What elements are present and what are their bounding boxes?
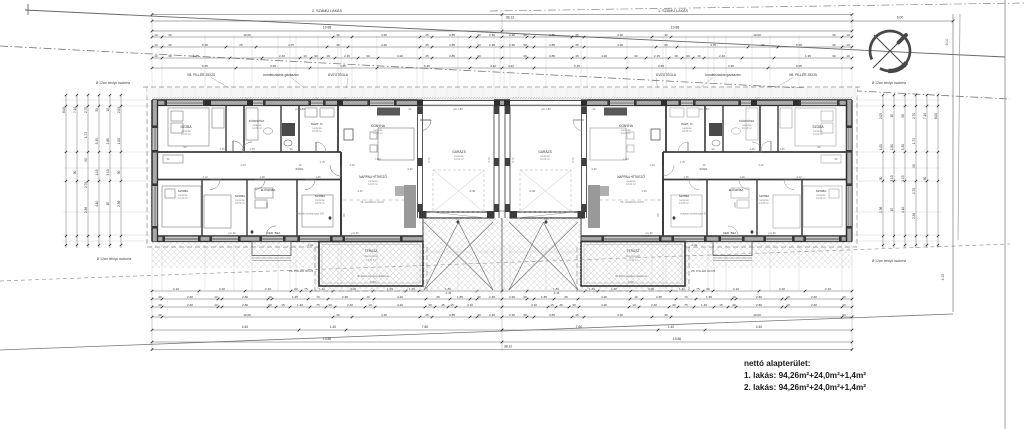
svg-text:10: 10 bbox=[366, 295, 370, 299]
svg-text:1.40: 1.40 bbox=[701, 303, 707, 307]
svg-text:2.20: 2.20 bbox=[779, 287, 785, 291]
svg-text:pm 90: pm 90 bbox=[768, 231, 776, 235]
svg-text:7.60: 7.60 bbox=[576, 325, 583, 329]
svg-text:±0.00: ±0.00 bbox=[499, 209, 506, 213]
svg-text:10: 10 bbox=[214, 295, 218, 299]
svg-text:kondenzációs gázkazán: kondenzációs gázkazán bbox=[263, 73, 298, 77]
svg-text:4.35: 4.35 bbox=[641, 189, 647, 193]
svg-text:-0.48: -0.48 bbox=[445, 291, 452, 295]
svg-text:2.80: 2.80 bbox=[106, 138, 110, 144]
svg-text:2.10: 2.10 bbox=[173, 287, 179, 291]
svg-text:30: 30 bbox=[477, 295, 481, 299]
svg-text:3.30: 3.30 bbox=[901, 144, 905, 150]
svg-text:1.15: 1.15 bbox=[95, 169, 99, 175]
svg-text:ÜVEGTÉGLA: ÜVEGTÉGLA bbox=[328, 72, 349, 77]
svg-text:75: 75 bbox=[304, 287, 308, 291]
svg-text:3.85: 3.85 bbox=[549, 43, 555, 47]
svg-text:12,00 m²: 12,00 m² bbox=[813, 133, 823, 136]
svg-text:4.35: 4.35 bbox=[357, 189, 363, 193]
svg-text:8.00: 8.00 bbox=[934, 113, 938, 119]
svg-text:1.40: 1.40 bbox=[297, 303, 303, 307]
svg-text:30: 30 bbox=[158, 313, 162, 317]
svg-text:2.05: 2.05 bbox=[733, 202, 737, 208]
svg-text:2.80: 2.80 bbox=[756, 295, 762, 299]
svg-text:2.30: 2.30 bbox=[509, 43, 515, 47]
svg-text:2.40: 2.40 bbox=[407, 167, 413, 171]
svg-text:1.00: 1.00 bbox=[879, 144, 883, 150]
svg-text:10: 10 bbox=[846, 43, 850, 47]
svg-text:pm 1.80: pm 1.80 bbox=[295, 107, 305, 111]
svg-text:12,00 m²: 12,00 m² bbox=[252, 127, 262, 130]
svg-text:45: 45 bbox=[564, 295, 568, 299]
svg-text:pm 90: pm 90 bbox=[228, 231, 236, 235]
svg-text:1.35: 1.35 bbox=[805, 54, 811, 58]
svg-text:2.10: 2.10 bbox=[202, 175, 208, 179]
svg-text:60: 60 bbox=[294, 287, 298, 291]
svg-text:4.40: 4.40 bbox=[756, 325, 763, 329]
svg-text:30: 30 bbox=[672, 303, 676, 307]
svg-text:10: 10 bbox=[786, 303, 790, 307]
svg-text:30: 30 bbox=[117, 171, 121, 175]
svg-text:1.45: 1.45 bbox=[249, 147, 255, 151]
svg-text:30: 30 bbox=[842, 313, 846, 317]
svg-text:2.05: 2.05 bbox=[265, 202, 269, 208]
svg-text:1.15: 1.15 bbox=[679, 160, 685, 164]
svg-text:12,00 m²: 12,00 m² bbox=[621, 132, 631, 135]
svg-text:30: 30 bbox=[328, 303, 332, 307]
svg-text:GARÁZS: GARÁZS bbox=[538, 150, 552, 154]
svg-text:2.15: 2.15 bbox=[344, 54, 350, 58]
svg-text:12,00 m²: 12,00 m² bbox=[181, 133, 191, 136]
svg-text:2.20: 2.20 bbox=[219, 287, 225, 291]
svg-text:3.65: 3.65 bbox=[658, 64, 664, 68]
svg-text:2.40: 2.40 bbox=[279, 54, 285, 58]
svg-text:70: 70 bbox=[316, 295, 320, 299]
svg-text:2.60: 2.60 bbox=[187, 295, 193, 299]
svg-text:2.10: 2.10 bbox=[733, 287, 739, 291]
svg-text:12,00 m²: 12,00 m² bbox=[454, 158, 464, 161]
svg-text:30: 30 bbox=[268, 303, 272, 307]
svg-text:75: 75 bbox=[316, 303, 320, 307]
svg-text:1.72: 1.72 bbox=[912, 138, 916, 144]
svg-text:beépített szekrénysor 240: beépített szekrénysor 240 bbox=[680, 213, 708, 216]
svg-text:GARÁZS: GARÁZS bbox=[452, 150, 466, 154]
svg-text:15: 15 bbox=[550, 303, 554, 307]
svg-text:t.110: t.110 bbox=[623, 157, 629, 161]
svg-text:30: 30 bbox=[523, 33, 527, 37]
svg-text:30: 30 bbox=[879, 177, 883, 181]
svg-text:KÖZL.: KÖZL. bbox=[296, 167, 305, 171]
svg-text:90: 90 bbox=[686, 54, 690, 58]
svg-text:2.70: 2.70 bbox=[84, 182, 88, 188]
svg-text:30: 30 bbox=[428, 303, 432, 307]
svg-text:2. lakás: 94,26m²+24,0m²+1,4m²: 2. lakás: 94,26m²+24,0m²+1,4m² bbox=[744, 383, 866, 392]
svg-text:45: 45 bbox=[425, 43, 429, 47]
svg-text:2.30: 2.30 bbox=[509, 313, 515, 317]
svg-text:4.75: 4.75 bbox=[288, 43, 294, 47]
svg-text:10: 10 bbox=[154, 54, 158, 58]
svg-text:30: 30 bbox=[158, 303, 162, 307]
svg-text:2.30: 2.30 bbox=[489, 295, 495, 299]
svg-text:5.70: 5.70 bbox=[487, 157, 491, 163]
svg-text:8.00: 8.00 bbox=[945, 39, 949, 46]
svg-text:pm 1.80: pm 1.80 bbox=[699, 107, 709, 111]
svg-text:60: 60 bbox=[706, 287, 710, 291]
svg-text:-0.48: -0.48 bbox=[553, 291, 560, 295]
svg-text:2.40: 2.40 bbox=[240, 163, 246, 167]
svg-text:30: 30 bbox=[572, 303, 576, 307]
svg-text:30: 30 bbox=[523, 295, 527, 299]
svg-text:NAPPALI+ÉTKEZŐ: NAPPALI+ÉTKEZŐ bbox=[617, 174, 645, 179]
svg-text:2.60: 2.60 bbox=[811, 295, 817, 299]
svg-text:90: 90 bbox=[84, 158, 88, 162]
svg-text:1.35: 1.35 bbox=[219, 147, 225, 151]
svg-text:4.20: 4.20 bbox=[617, 313, 623, 317]
svg-text:10: 10 bbox=[846, 54, 850, 58]
svg-text:10: 10 bbox=[786, 295, 790, 299]
svg-text:90: 90 bbox=[314, 54, 318, 58]
svg-text:3.10: 3.10 bbox=[106, 169, 110, 175]
svg-text:12,00 m²: 12,00 m² bbox=[540, 158, 550, 161]
svg-text:10: 10 bbox=[890, 114, 894, 118]
svg-text:30: 30 bbox=[168, 43, 172, 47]
svg-text:2.40: 2.40 bbox=[719, 54, 725, 58]
svg-text:6.45: 6.45 bbox=[424, 64, 430, 68]
svg-text:10: 10 bbox=[106, 108, 110, 112]
svg-text:1.85: 1.85 bbox=[457, 295, 463, 299]
svg-text:-0.02: -0.02 bbox=[691, 243, 698, 247]
svg-text:Ø 12cm lefolyó csatorna: Ø 12cm lefolyó csatorna bbox=[872, 81, 907, 85]
svg-text:2.95: 2.95 bbox=[342, 295, 348, 299]
svg-text:4.10: 4.10 bbox=[901, 206, 905, 212]
svg-text:30: 30 bbox=[366, 54, 370, 58]
svg-text:75: 75 bbox=[684, 303, 688, 307]
svg-text:12,00 m²: 12,00 m² bbox=[373, 132, 383, 135]
svg-text:30: 30 bbox=[832, 33, 836, 37]
svg-text:KONYHA: KONYHA bbox=[371, 124, 386, 128]
svg-text:45: 45 bbox=[575, 33, 579, 37]
svg-text:10: 10 bbox=[154, 43, 158, 47]
svg-text:NAPPALI+ÉTKEZŐ: NAPPALI+ÉTKEZŐ bbox=[359, 174, 387, 179]
svg-text:10.00: 10.00 bbox=[243, 313, 251, 317]
svg-text:30: 30 bbox=[634, 54, 638, 58]
svg-text:12,00 m²: 12,00 m² bbox=[312, 130, 322, 133]
svg-text:18: 18 bbox=[326, 54, 330, 58]
svg-text:SZOBA: SZOBA bbox=[679, 194, 689, 198]
svg-text:30: 30 bbox=[477, 33, 481, 37]
svg-text:30: 30 bbox=[842, 303, 846, 307]
svg-text:10: 10 bbox=[890, 208, 894, 212]
svg-text:2.70: 2.70 bbox=[84, 107, 88, 113]
svg-text:4.20: 4.20 bbox=[381, 43, 387, 47]
svg-text:1. lakás: 94,26m²+24,0m²+1,4m²: 1. lakás: 94,26m²+24,0m²+1,4m² bbox=[744, 371, 866, 380]
svg-text:12,00 m²: 12,00 m² bbox=[816, 197, 826, 200]
svg-text:1. SZÁMÚ LAKÁS: 1. SZÁMÚ LAKÁS bbox=[658, 8, 688, 13]
svg-text:VB. PILLÉR 30X25: VB. PILLÉR 30X25 bbox=[691, 268, 716, 273]
svg-text:FÜRDŐSZ.: FÜRDŐSZ. bbox=[249, 118, 265, 123]
svg-text:3.65: 3.65 bbox=[340, 64, 346, 68]
svg-text:2.15: 2.15 bbox=[654, 54, 660, 58]
svg-text:2.80: 2.80 bbox=[242, 303, 248, 307]
svg-text:VB. PILLÉR 25X25: VB. PILLÉR 25X25 bbox=[187, 72, 215, 77]
svg-text:2.10: 2.10 bbox=[265, 287, 271, 291]
svg-text:-0.30: -0.30 bbox=[469, 189, 476, 193]
svg-text:2.36: 2.36 bbox=[912, 213, 916, 219]
svg-text:2.10: 2.10 bbox=[796, 175, 802, 179]
svg-text:10: 10 bbox=[106, 202, 110, 206]
svg-text:4.40: 4.40 bbox=[242, 325, 249, 329]
svg-text:Ø 12cm lefolyó csatorna: Ø 12cm lefolyó csatorna bbox=[96, 81, 131, 85]
svg-text:3.85: 3.85 bbox=[449, 313, 455, 317]
svg-text:30: 30 bbox=[523, 43, 527, 47]
svg-text:2.40: 2.40 bbox=[591, 167, 597, 171]
svg-text:FED. BEJ.: FED. BEJ. bbox=[723, 231, 737, 235]
svg-text:15: 15 bbox=[281, 303, 285, 307]
svg-text:ÜVEGTÉGLA: ÜVEGTÉGLA bbox=[656, 72, 677, 77]
svg-text:30: 30 bbox=[842, 295, 846, 299]
svg-text:3.85: 3.85 bbox=[449, 43, 455, 47]
svg-text:7.10: 7.10 bbox=[923, 113, 927, 119]
svg-text:4.16: 4.16 bbox=[467, 303, 473, 307]
svg-text:45: 45 bbox=[425, 33, 429, 37]
svg-text:19.88: 19.88 bbox=[671, 26, 680, 30]
svg-text:10.00: 10.00 bbox=[753, 313, 761, 317]
svg-text:1.45: 1.45 bbox=[749, 147, 755, 151]
svg-text:30: 30 bbox=[901, 114, 905, 118]
svg-text:4.20: 4.20 bbox=[601, 303, 607, 307]
svg-text:2.36: 2.36 bbox=[879, 206, 883, 212]
svg-text:1.85: 1.85 bbox=[541, 295, 547, 299]
svg-text:pm 1.80: pm 1.80 bbox=[541, 107, 551, 111]
svg-text:30: 30 bbox=[523, 313, 527, 317]
svg-text:10: 10 bbox=[697, 54, 701, 58]
svg-text:1.10: 1.10 bbox=[649, 163, 655, 167]
svg-text:45: 45 bbox=[436, 295, 440, 299]
svg-text:5.00: 5.00 bbox=[796, 43, 802, 47]
svg-text:2.10: 2.10 bbox=[825, 287, 831, 291]
svg-text:5.70: 5.70 bbox=[571, 157, 575, 163]
svg-text:1.95: 1.95 bbox=[706, 295, 712, 299]
svg-text:SZOBA: SZOBA bbox=[235, 194, 245, 198]
svg-text:nettó alapterület:: nettó alapterület: bbox=[744, 359, 810, 368]
svg-text:kondenzációs gázkazán: kondenzációs gázkazán bbox=[705, 73, 740, 77]
svg-text:12,00 m²: 12,00 m² bbox=[682, 130, 692, 133]
svg-text:2.40: 2.40 bbox=[758, 163, 764, 167]
svg-text:45: 45 bbox=[425, 54, 429, 58]
svg-text:beépített szekrénysor 240: beépített szekrénysor 240 bbox=[296, 213, 324, 216]
svg-text:7.10: 7.10 bbox=[73, 107, 77, 113]
svg-text:45: 45 bbox=[425, 313, 429, 317]
svg-text:HÁZT. H.: HÁZT. H. bbox=[681, 122, 694, 126]
svg-text:2.05: 2.05 bbox=[879, 113, 883, 119]
svg-text:30: 30 bbox=[477, 43, 481, 47]
svg-text:2.40: 2.40 bbox=[651, 303, 657, 307]
svg-text:6.00: 6.00 bbox=[897, 16, 904, 20]
svg-text:HÁZT. H.: HÁZT. H. bbox=[311, 122, 324, 126]
svg-text:2.95: 2.95 bbox=[656, 295, 662, 299]
svg-text:30: 30 bbox=[664, 33, 668, 37]
svg-text:30: 30 bbox=[336, 313, 340, 317]
svg-text:10: 10 bbox=[732, 295, 736, 299]
svg-text:38.12: 38.12 bbox=[504, 345, 512, 349]
svg-text:15: 15 bbox=[450, 303, 454, 307]
svg-text:10: 10 bbox=[632, 303, 636, 307]
svg-text:3.30: 3.30 bbox=[95, 138, 99, 144]
svg-text:10: 10 bbox=[846, 33, 850, 37]
svg-text:18: 18 bbox=[674, 54, 678, 58]
svg-text:SZOBA: SZOBA bbox=[812, 125, 824, 129]
svg-text:SZOBA: SZOBA bbox=[759, 194, 769, 198]
svg-text:Ø 12cm lefolyó csatorna: Ø 12cm lefolyó csatorna bbox=[872, 259, 907, 263]
svg-text:2.30: 2.30 bbox=[489, 313, 495, 317]
svg-text:45: 45 bbox=[575, 54, 579, 58]
svg-text:6.05: 6.05 bbox=[796, 64, 802, 68]
svg-text:1.00: 1.00 bbox=[117, 138, 121, 144]
svg-text:45: 45 bbox=[575, 313, 579, 317]
svg-text:10: 10 bbox=[154, 33, 158, 37]
svg-text:1.40: 1.40 bbox=[668, 325, 675, 329]
svg-text:VB. PILLÉR 25X25: VB. PILLÉR 25X25 bbox=[789, 72, 817, 77]
svg-text:2.05: 2.05 bbox=[117, 107, 121, 113]
svg-text:KONYHA: KONYHA bbox=[619, 124, 634, 128]
svg-text:30: 30 bbox=[732, 303, 736, 307]
svg-text:1.35: 1.35 bbox=[193, 54, 199, 58]
svg-text:19.86: 19.86 bbox=[323, 337, 331, 341]
svg-text:45: 45 bbox=[441, 303, 445, 307]
svg-text:30: 30 bbox=[477, 313, 481, 317]
svg-text:4.20: 4.20 bbox=[381, 313, 387, 317]
svg-text:30: 30 bbox=[168, 33, 172, 37]
svg-text:pm 1.80: pm 1.80 bbox=[453, 107, 463, 111]
svg-text:25: 25 bbox=[239, 43, 243, 47]
svg-text:30: 30 bbox=[477, 54, 481, 58]
svg-text:2. SZÁMÚ LAKÁS: 2. SZÁMÚ LAKÁS bbox=[312, 8, 342, 13]
svg-text:7.60: 7.60 bbox=[422, 325, 429, 329]
svg-text:30: 30 bbox=[336, 43, 340, 47]
svg-text:4.75: 4.75 bbox=[710, 43, 716, 47]
svg-text:2.36: 2.36 bbox=[84, 207, 88, 213]
svg-text:12,00 m²: 12,00 m² bbox=[178, 197, 188, 200]
svg-text:70: 70 bbox=[684, 295, 688, 299]
svg-text:4.20: 4.20 bbox=[601, 54, 607, 58]
svg-text:3.85: 3.85 bbox=[549, 313, 555, 317]
svg-text:2.60: 2.60 bbox=[811, 303, 817, 307]
svg-text:2.30: 2.30 bbox=[509, 295, 515, 299]
svg-text:5.70: 5.70 bbox=[427, 157, 431, 163]
svg-text:2.80: 2.80 bbox=[756, 303, 762, 307]
svg-text:SZOBA: SZOBA bbox=[816, 189, 827, 193]
svg-text:2.40: 2.40 bbox=[347, 303, 353, 307]
svg-text:30: 30 bbox=[923, 177, 927, 181]
svg-text:4.20: 4.20 bbox=[617, 33, 623, 37]
svg-text:1.40: 1.40 bbox=[330, 325, 337, 329]
svg-text:12,00 m²: 12,00 m² bbox=[679, 202, 689, 205]
svg-text:1.45: 1.45 bbox=[683, 175, 689, 179]
svg-text:1.95: 1.95 bbox=[292, 295, 298, 299]
svg-text:45: 45 bbox=[559, 303, 563, 307]
svg-text:1.48: 1.48 bbox=[259, 175, 265, 179]
svg-text:4.20: 4.20 bbox=[617, 43, 623, 47]
svg-text:1.48: 1.48 bbox=[739, 175, 745, 179]
svg-text:10: 10 bbox=[214, 303, 218, 307]
svg-text:3.20: 3.20 bbox=[728, 64, 734, 68]
svg-text:pm 90: pm 90 bbox=[351, 231, 359, 235]
svg-text:4.20: 4.20 bbox=[397, 295, 403, 299]
svg-text:6.45: 6.45 bbox=[574, 64, 580, 68]
svg-text:2.80: 2.80 bbox=[890, 144, 894, 150]
svg-text:2.70: 2.70 bbox=[912, 113, 916, 119]
svg-text:30: 30 bbox=[664, 313, 668, 317]
svg-text:3.10: 3.10 bbox=[890, 175, 894, 181]
svg-text:8.00: 8.00 bbox=[62, 107, 66, 113]
svg-text:2.30: 2.30 bbox=[489, 33, 495, 37]
svg-text:30: 30 bbox=[832, 54, 836, 58]
svg-text:1.72: 1.72 bbox=[84, 132, 88, 138]
svg-text:12,00 m²: 12,00 m² bbox=[315, 202, 325, 205]
svg-text:10: 10 bbox=[634, 295, 638, 299]
svg-text:SZOBA: SZOBA bbox=[178, 189, 189, 193]
svg-text:12,00 m²: 12,00 m² bbox=[626, 183, 636, 186]
svg-text:2.60: 2.60 bbox=[187, 303, 193, 307]
svg-text:2.36: 2.36 bbox=[117, 200, 121, 206]
svg-text:10.00: 10.00 bbox=[753, 33, 761, 37]
svg-text:2.30: 2.30 bbox=[489, 43, 495, 47]
svg-text:12,00 m²: 12,00 m² bbox=[742, 127, 752, 130]
svg-text:25: 25 bbox=[761, 43, 765, 47]
svg-text:4.15: 4.15 bbox=[941, 274, 945, 281]
svg-text:SZOBA: SZOBA bbox=[180, 125, 192, 129]
svg-text:30: 30 bbox=[336, 33, 340, 37]
svg-text:4.20: 4.20 bbox=[397, 54, 403, 58]
svg-text:2.30: 2.30 bbox=[509, 33, 515, 37]
svg-text:4.20: 4.20 bbox=[381, 33, 387, 37]
svg-text:10: 10 bbox=[268, 295, 272, 299]
svg-text:5.00: 5.00 bbox=[202, 43, 208, 47]
svg-text:VB. GERENDA 30X25: VB. GERENDA 30X25 bbox=[620, 201, 644, 204]
svg-text:3.85: 3.85 bbox=[449, 33, 455, 37]
svg-text:4.10: 4.10 bbox=[95, 200, 99, 206]
svg-text:KÖZL.: KÖZL. bbox=[700, 167, 709, 171]
svg-text:3.85: 3.85 bbox=[549, 54, 555, 58]
svg-text:6.05: 6.05 bbox=[202, 64, 208, 68]
svg-text:4.42: 4.42 bbox=[490, 64, 496, 68]
svg-text:30: 30 bbox=[168, 54, 172, 58]
svg-text:30: 30 bbox=[523, 54, 527, 58]
svg-text:SZOBA: SZOBA bbox=[315, 194, 325, 198]
svg-text:-0.30: -0.30 bbox=[529, 189, 536, 193]
svg-text:30: 30 bbox=[664, 43, 668, 47]
svg-text:5.70: 5.70 bbox=[511, 157, 515, 163]
svg-text:45: 45 bbox=[575, 43, 579, 47]
svg-text:30: 30 bbox=[832, 43, 836, 47]
svg-text:4.20: 4.20 bbox=[397, 303, 403, 307]
svg-text:10: 10 bbox=[368, 303, 372, 307]
svg-text:1.45: 1.45 bbox=[315, 175, 321, 179]
svg-text:1.15: 1.15 bbox=[901, 175, 905, 181]
svg-text:30: 30 bbox=[158, 295, 162, 299]
svg-text:Ø 12cm lefolyó csatorna: Ø 12cm lefolyó csatorna bbox=[97, 257, 132, 261]
svg-text:4.16: 4.16 bbox=[531, 303, 537, 307]
svg-text:t.110: t.110 bbox=[375, 157, 381, 161]
svg-text:FED. BEJ.: FED. BEJ. bbox=[267, 231, 281, 235]
svg-text:30: 30 bbox=[73, 171, 77, 175]
svg-text:38.12: 38.12 bbox=[506, 16, 515, 20]
svg-text:4.42: 4.42 bbox=[508, 64, 514, 68]
svg-text:90: 90 bbox=[912, 164, 916, 168]
svg-text:FÜRDŐSZ.: FÜRDŐSZ. bbox=[739, 118, 755, 123]
svg-text:3.20: 3.20 bbox=[270, 64, 276, 68]
svg-text:15: 15 bbox=[719, 303, 723, 307]
